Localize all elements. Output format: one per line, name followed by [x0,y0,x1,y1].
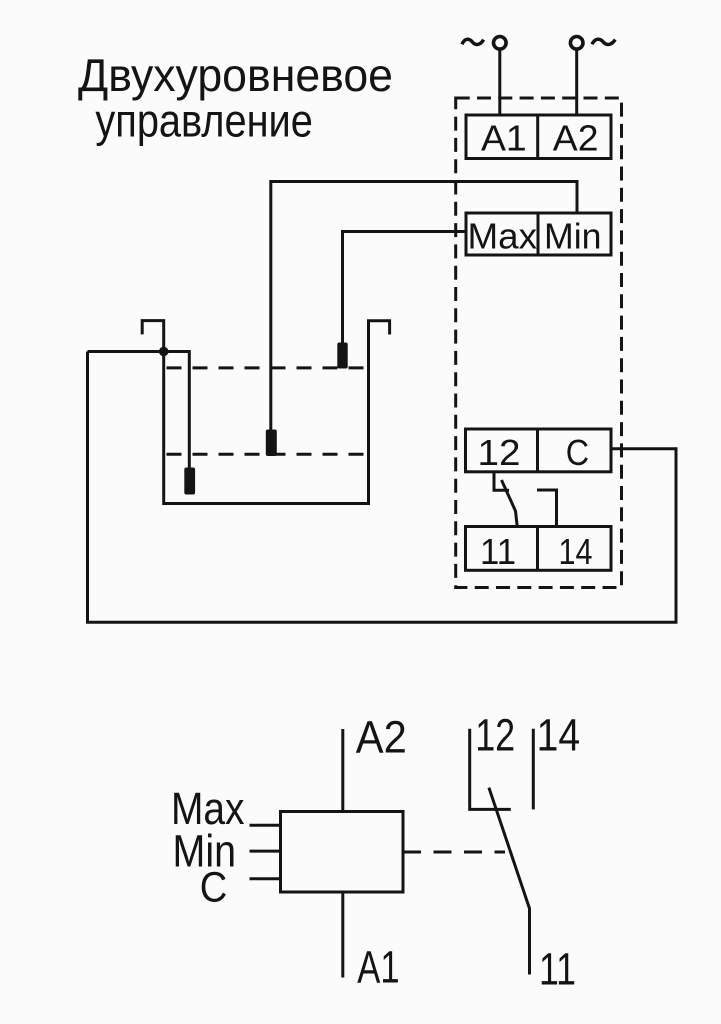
wire N to A2 [575,51,578,117]
svg-text:C: C [200,864,228,912]
terminal box 12/C [466,429,612,473]
title text [78,49,393,147]
terminal box Max/Min [466,213,611,256]
water level min dashed [167,453,367,456]
svg-text:A1: A1 [357,941,399,992]
lead C [250,877,281,880]
contact terminal 14 (bottom symbol) [532,729,535,810]
svg-text:управление: управление [95,95,313,147]
svg-text:A1: A1 [481,117,527,158]
junction dot on tank wall [159,347,169,357]
wire C loop to terminal C [88,352,677,623]
contact seat from terminal 12 [494,472,509,491]
terminal circle N [570,37,583,50]
svg-text:Min: Min [544,215,602,256]
electrode C tip [184,468,195,495]
lead Max [250,824,281,827]
svg-text:14: 14 [537,710,581,761]
lead Min [250,850,281,853]
wire L to A1 [498,51,501,117]
terminal box 11/14 [466,527,612,572]
lead A2 [341,729,344,812]
svg-text:Двухуровневое: Двухуровневое [78,49,393,101]
contact terminal 12 (bottom symbol) [470,729,511,810]
terminal box A1/A2 [466,115,611,159]
relay body box (bottom symbol) [281,812,404,893]
AC source symbol ~ left [462,39,484,44]
moving contact lever (bottom symbol) [489,788,530,975]
svg-text:14: 14 [559,531,593,572]
svg-text:12: 12 [478,432,521,473]
lead A1 [341,892,344,978]
svg-text:12: 12 [475,710,515,761]
svg-text:11: 11 [539,944,576,995]
relay unit dashed outline [456,98,622,588]
actuation dashed link [403,851,505,854]
svg-text:C: C [566,432,589,473]
AC source symbol ~ right [592,39,615,44]
svg-text:A2: A2 [356,712,407,763]
svg-text:11: 11 [480,531,516,572]
wire Min terminal to middle electrode [271,182,577,431]
svg-text:Max: Max [468,215,538,256]
wire C to long electrode [88,352,190,470]
svg-text:A2: A2 [553,117,599,158]
water level max dashed [167,366,367,369]
electrode Max tip [337,343,347,369]
tank [142,321,389,504]
moving contact NC [502,480,518,527]
electrode Min tip [266,430,277,457]
wire Max terminal to short electrode [343,232,467,345]
terminal circle L [494,37,507,50]
contact stub terminal 14 [537,490,557,527]
